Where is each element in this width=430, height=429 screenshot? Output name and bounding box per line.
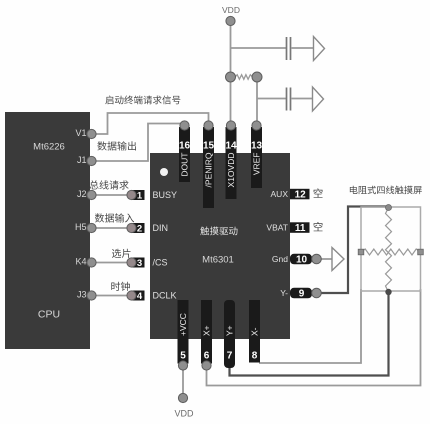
- svg-text:VREF: VREF: [252, 153, 262, 176]
- svg-text:2: 2: [137, 223, 142, 234]
- svg-text:11: 11: [295, 223, 306, 234]
- svg-text:AUX: AUX: [271, 189, 289, 199]
- svg-text:Y+: Y+: [225, 325, 235, 336]
- svg-text:J2: J2: [77, 189, 87, 199]
- svg-text:K4: K4: [75, 257, 86, 267]
- svg-text:15: 15: [203, 141, 215, 152]
- svg-text:5: 5: [180, 351, 186, 362]
- svg-text:1: 1: [137, 190, 143, 201]
- svg-text:10: 10: [296, 255, 308, 266]
- svg-text:3: 3: [137, 258, 142, 269]
- svg-text:16: 16: [179, 141, 191, 152]
- svg-text:VDD: VDD: [174, 409, 194, 419]
- svg-text:13: 13: [251, 141, 263, 152]
- svg-text:CPU: CPU: [38, 309, 60, 321]
- svg-text:4: 4: [137, 291, 143, 302]
- svg-text:J1: J1: [77, 155, 87, 165]
- svg-text:X-: X-: [250, 327, 260, 336]
- svg-text:DCLK: DCLK: [153, 291, 177, 301]
- svg-text:BUSY: BUSY: [153, 190, 178, 200]
- svg-text:J3: J3: [77, 290, 87, 300]
- svg-text:12: 12: [295, 190, 307, 201]
- svg-text:VDD: VDD: [222, 5, 240, 15]
- svg-text:/CS: /CS: [153, 258, 168, 268]
- svg-text:14: 14: [225, 141, 237, 152]
- svg-text:6: 6: [204, 351, 210, 362]
- svg-text:Gnd: Gnd: [272, 254, 288, 264]
- svg-text:7: 7: [227, 351, 233, 362]
- svg-text:H5: H5: [75, 222, 87, 232]
- svg-text:/PENIRQ: /PENIRQ: [204, 152, 214, 187]
- svg-text:Y-: Y-: [280, 288, 288, 298]
- svg-text:Mt6301: Mt6301: [202, 255, 234, 266]
- svg-text:V1: V1: [75, 128, 86, 138]
- svg-text:+VCC: +VCC: [178, 313, 188, 336]
- svg-text:9: 9: [299, 289, 305, 300]
- svg-text:DIN: DIN: [153, 223, 169, 233]
- svg-text:8: 8: [252, 351, 258, 362]
- svg-text:DOUT: DOUT: [180, 153, 190, 177]
- svg-text:Mt6226: Mt6226: [33, 142, 65, 153]
- svg-text:X1OVDD: X1OVDD: [226, 153, 236, 188]
- svg-text:VBAT: VBAT: [266, 223, 288, 233]
- svg-text:X+: X+: [202, 325, 212, 336]
